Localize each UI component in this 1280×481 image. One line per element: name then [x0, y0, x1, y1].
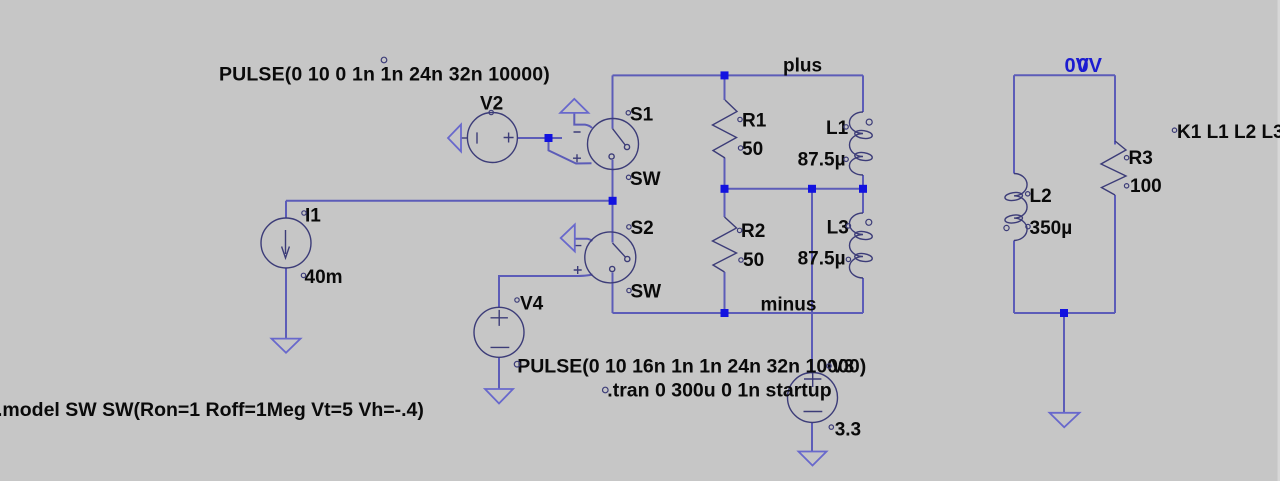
wire middle rail	[725, 188, 864, 190]
switch S2	[585, 232, 636, 283]
junction at S1/S2 midpoint and I1 wire	[609, 197, 617, 205]
svg-text:40m: 40m	[305, 267, 343, 288]
wire S2 minus control	[575, 239, 593, 242]
wire V4 to S2 plus	[499, 275, 593, 308]
svg-text:minus: minus	[761, 295, 817, 316]
svg-text:50: 50	[743, 250, 764, 271]
inductor L1	[849, 112, 863, 175]
svg-text:S2: S2	[631, 218, 654, 239]
svg-text:plus: plus	[783, 56, 822, 77]
junction on minus rail at R2 bottom	[721, 309, 729, 317]
svg-text:V3: V3	[831, 357, 854, 378]
ground right loop	[1050, 413, 1080, 428]
ground V2	[448, 125, 461, 152]
svg-text:PULSE(0 10 16n 1n 1n 24n 32n 1: PULSE(0 10 16n 1n 1n 24n 32n 10000)	[517, 355, 866, 377]
wire right loop left	[1013, 75, 1015, 313]
svg-text:100: 100	[1130, 176, 1162, 197]
wire bottom rail minus	[613, 312, 864, 314]
wire left column S1/S2	[612, 75, 614, 313]
junction center-tap rail at L1/L3	[859, 185, 867, 193]
wire V4 to ground	[498, 357, 500, 389]
wire top rail plus	[613, 74, 864, 76]
junction right loop ground tap	[1060, 309, 1068, 317]
svg-text:3.3: 3.3	[835, 420, 861, 441]
wire right loop top rail 0V	[1014, 74, 1115, 76]
svg-text:L2: L2	[1030, 186, 1052, 207]
svg-text:V2: V2	[480, 94, 503, 115]
wire R column	[724, 75, 726, 313]
svg-text:.tran 0 300u 0 1n startup: .tran 0 300u 0 1n startup	[607, 380, 831, 402]
switch S1	[588, 119, 639, 170]
source V3	[788, 373, 838, 423]
ground I1	[272, 339, 301, 353]
svg-text:SW: SW	[630, 169, 661, 190]
svg-text:.model SW SW(Ron=1 Roff=1Meg V: .model SW SW(Ron=1 Roff=1Meg Vt=5 Vh=-.4…	[0, 399, 424, 421]
svg-text:K1 L1 L2 L3: K1 L1 L2 L3	[1177, 122, 1280, 143]
svg-text:SW: SW	[631, 282, 662, 303]
source V4	[474, 307, 524, 357]
wire S1 plus control	[549, 141, 592, 164]
junction center-tap rail at V3 branch	[808, 185, 816, 193]
junction at V2 output / S1 control	[545, 134, 553, 142]
svg-text:R1: R1	[742, 111, 767, 132]
svg-text:50: 50	[742, 139, 763, 160]
svg-text:S1: S1	[630, 104, 654, 125]
ground V4	[485, 389, 513, 404]
wire V2 plus terminal to junction	[517, 137, 562, 139]
source V2	[467, 113, 517, 163]
svg-text:R3: R3	[1129, 148, 1153, 169]
wire I1 horizontal	[286, 201, 613, 338]
svg-text:87.5µ: 87.5µ	[798, 150, 846, 171]
wire S1 minus control	[574, 113, 592, 128]
resistor R2	[713, 217, 737, 272]
source I1	[261, 218, 311, 268]
svg-text:V4: V4	[520, 293, 544, 314]
resistor R1	[713, 100, 738, 158]
junction on plus rail at R1 top	[721, 71, 729, 79]
resistor R3	[1101, 141, 1126, 195]
svg-text:L3: L3	[827, 218, 849, 239]
inductor L3	[849, 213, 863, 278]
svg-text:PULSE(0 10 0 1n 1n 24n 32n 100: PULSE(0 10 0 1n 1n 24n 32n 10000)	[219, 63, 550, 85]
wire right loop right	[1114, 75, 1116, 313]
svg-text:87.5µ: 87.5µ	[798, 249, 846, 270]
wire V3 column	[811, 189, 813, 452]
svg-text:R2: R2	[741, 221, 765, 242]
inductor L2	[1014, 174, 1027, 241]
svg-text:0V: 0V	[1078, 55, 1103, 77]
wire L column	[862, 75, 864, 313]
svg-text:350µ: 350µ	[1030, 218, 1073, 239]
ground V3	[799, 452, 827, 466]
ground S2	[561, 225, 575, 252]
wire right loop bottom	[1014, 313, 1115, 413]
wire V2 minus lead to ground	[462, 137, 468, 139]
junction center-tap rail at R1/R2	[721, 185, 729, 193]
ground S1	[560, 99, 588, 113]
svg-text:I1: I1	[305, 206, 321, 227]
